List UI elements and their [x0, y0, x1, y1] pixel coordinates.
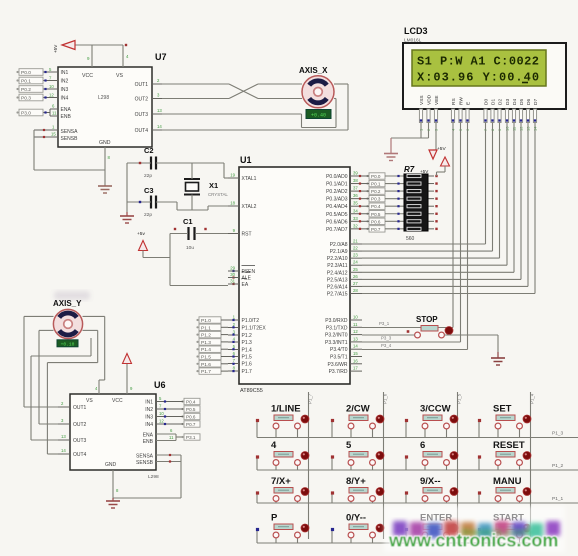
svg-text:1/LINE: 1/LINE [271, 404, 301, 415]
svg-text:32: 32 [353, 223, 358, 228]
svg-text:P1.7: P1.7 [242, 369, 253, 375]
svg-text:ENB: ENB [143, 439, 154, 445]
svg-text:17: 17 [353, 366, 358, 371]
svg-text:GND: GND [105, 462, 117, 468]
svg-text:SET: SET [493, 404, 512, 415]
svg-text:IN1: IN1 [61, 70, 69, 76]
svg-text:P0.4/AD4: P0.4/AD4 [326, 204, 348, 210]
svg-text:P2.6/A14: P2.6/A14 [327, 284, 348, 290]
svg-text:AT89C55: AT89C55 [240, 388, 263, 394]
svg-text:VS: VS [86, 398, 93, 404]
svg-text:P0.0: P0.0 [21, 70, 31, 76]
svg-text:P0.7/AD7: P0.7/AD7 [326, 227, 348, 233]
svg-text:3/CCW: 3/CCW [420, 404, 451, 415]
svg-text:RESET: RESET [493, 440, 525, 451]
svg-text:VS: VS [116, 73, 123, 79]
svg-text:D3: D3 [505, 99, 511, 105]
svg-text:11: 11 [169, 435, 174, 440]
svg-text:P0.5: P0.5 [371, 212, 381, 217]
svg-text:P1.0/T2: P1.0/T2 [242, 318, 260, 324]
svg-text:P0.5: P0.5 [186, 407, 196, 412]
svg-text:OUT2: OUT2 [73, 422, 87, 428]
svg-text:P1.3: P1.3 [242, 340, 253, 346]
svg-text:23: 23 [353, 253, 358, 258]
svg-text:+5V: +5V [53, 44, 58, 53]
svg-text:VEE: VEE [434, 95, 440, 105]
svg-text:XTAL2: XTAL2 [242, 204, 257, 210]
svg-text:P3_1: P3_1 [379, 321, 390, 326]
svg-text:OUT2: OUT2 [135, 97, 149, 103]
svg-text:LCD3: LCD3 [404, 26, 428, 36]
svg-text:P0.5/AD5: P0.5/AD5 [326, 212, 348, 218]
svg-text:OUT1: OUT1 [135, 82, 149, 88]
svg-text:AXIS_X: AXIS_X [299, 66, 328, 75]
svg-text:X:03.96 Y:00.40: X:03.96 Y:00.40 [417, 71, 540, 85]
svg-text:SENSA: SENSA [136, 454, 154, 460]
svg-text:D4: D4 [512, 99, 518, 105]
svg-text:19: 19 [230, 173, 235, 178]
svg-text:14: 14 [61, 448, 66, 453]
svg-text:VSS: VSS [419, 95, 425, 105]
svg-text:P1.5: P1.5 [242, 355, 253, 361]
svg-text:P2.2/A10: P2.2/A10 [327, 256, 348, 262]
svg-text:P1.5: P1.5 [201, 355, 211, 361]
svg-text:P0.2: P0.2 [21, 87, 31, 93]
svg-text:P3.2/INT0: P3.2/INT0 [325, 333, 348, 339]
svg-text:30: 30 [230, 272, 235, 277]
svg-text:P1_6: P1_6 [383, 393, 388, 404]
svg-text:26: 26 [353, 274, 358, 279]
svg-text:VCC: VCC [82, 73, 93, 79]
svg-text:P1.7: P1.7 [201, 369, 211, 375]
svg-text:12: 12 [353, 329, 358, 334]
svg-text:2/CW: 2/CW [346, 404, 370, 415]
svg-text:IN4: IN4 [61, 96, 69, 102]
svg-text:EA: EA [242, 282, 249, 288]
svg-text:OUT3: OUT3 [73, 438, 87, 444]
svg-text:P3.1: P3.1 [186, 435, 196, 440]
svg-text:22p: 22p [144, 212, 152, 218]
svg-text:18: 18 [230, 201, 235, 206]
svg-text:CRYSTAL: CRYSTAL [208, 192, 228, 197]
svg-text:MANU: MANU [493, 476, 522, 487]
svg-text:STOP: STOP [416, 315, 438, 324]
svg-text:D6: D6 [526, 99, 532, 105]
svg-text:P0.1: P0.1 [21, 79, 31, 85]
svg-text:10: 10 [353, 315, 358, 320]
svg-text:U6: U6 [154, 380, 166, 390]
svg-text:P3.4/T0: P3.4/T0 [330, 347, 348, 353]
svg-text:P0.3: P0.3 [21, 96, 31, 102]
svg-text:OUT1: OUT1 [73, 405, 87, 411]
svg-text:P1_4: P1_4 [530, 393, 535, 404]
svg-text:P2.0/A8: P2.0/A8 [330, 242, 348, 248]
svg-text:33: 33 [353, 216, 358, 221]
svg-text:13: 13 [61, 434, 66, 439]
svg-text:P0.7: P0.7 [371, 227, 381, 232]
svg-text:RW: RW [459, 97, 465, 105]
svg-text:C3: C3 [144, 186, 154, 195]
svg-text:P3.1/TXD: P3.1/TXD [326, 325, 348, 331]
svg-text:P3.6/WR: P3.6/WR [327, 362, 347, 368]
svg-text:P2.1/A9: P2.1/A9 [330, 249, 348, 255]
svg-text:11: 11 [52, 111, 57, 116]
svg-text:D1: D1 [491, 99, 497, 105]
svg-text:24: 24 [353, 260, 358, 265]
svg-text:S1 P:W A1 C:0022: S1 P:W A1 C:0022 [417, 55, 539, 69]
svg-text:5: 5 [346, 440, 352, 451]
svg-text:28: 28 [353, 288, 358, 293]
svg-text:15: 15 [51, 132, 56, 137]
svg-text:P1.6: P1.6 [242, 362, 253, 368]
svg-text:C1: C1 [183, 217, 193, 226]
svg-text:25: 25 [353, 267, 358, 272]
svg-text:15: 15 [353, 351, 358, 356]
svg-text:VDD: VDD [427, 94, 433, 105]
svg-text:P3.7/RD: P3.7/RD [329, 369, 348, 375]
svg-text:GND: GND [99, 140, 111, 146]
svg-text:P0.4: P0.4 [186, 400, 196, 405]
svg-text:P2.4/A12: P2.4/A12 [327, 270, 348, 276]
svg-text:22p: 22p [144, 173, 152, 179]
svg-text:P2.3/A11: P2.3/A11 [327, 263, 347, 269]
svg-text:IN1: IN1 [145, 400, 153, 406]
svg-text:16: 16 [353, 358, 358, 363]
svg-text:9/X--: 9/X-- [420, 476, 441, 487]
svg-text:P0.2: P0.2 [371, 189, 381, 194]
svg-text:P1.0: P1.0 [201, 318, 211, 324]
svg-text:35: 35 [353, 201, 358, 206]
svg-text:IN3: IN3 [61, 87, 69, 93]
svg-text:P1.1: P1.1 [201, 325, 211, 331]
svg-text:+0.10: +0.10 [61, 342, 75, 348]
svg-text:+0.40: +0.40 [311, 113, 326, 119]
svg-text:13: 13 [353, 336, 358, 341]
svg-text:P0.6: P0.6 [186, 415, 196, 420]
svg-text:IN3: IN3 [145, 415, 153, 421]
svg-text:ENA: ENA [143, 433, 154, 439]
svg-text:D7: D7 [533, 99, 539, 105]
svg-text:P0.1: P0.1 [371, 182, 381, 187]
svg-text:22: 22 [353, 246, 358, 251]
svg-text:P0.6: P0.6 [371, 219, 381, 224]
svg-text:21: 21 [353, 239, 358, 244]
svg-text:P0.3/AD3: P0.3/AD3 [326, 197, 348, 203]
svg-text:36: 36 [353, 193, 358, 198]
svg-text:P3_4: P3_4 [381, 343, 392, 348]
svg-text:SENSA: SENSA [61, 129, 79, 135]
svg-text:P: P [271, 513, 278, 524]
svg-text:E: E [466, 102, 472, 105]
svg-text:+5v: +5v [137, 231, 145, 237]
svg-text:560: 560 [406, 236, 415, 242]
svg-text:P0.4: P0.4 [371, 204, 381, 209]
svg-text:P1_3: P1_3 [552, 431, 564, 437]
svg-text:P1.6: P1.6 [201, 362, 211, 368]
svg-text:P0.3: P0.3 [371, 197, 381, 202]
svg-text:8/Y+: 8/Y+ [346, 476, 366, 487]
svg-text:P0.1/AD1: P0.1/AD1 [326, 182, 348, 188]
svg-text:P1.3: P1.3 [201, 340, 211, 346]
svg-text:29: 29 [230, 266, 235, 271]
svg-text:X1: X1 [209, 181, 218, 190]
svg-text:P1.4: P1.4 [201, 347, 211, 353]
svg-text:AXIS_Y: AXIS_Y [53, 299, 82, 308]
svg-text:R7: R7 [404, 165, 415, 174]
svg-text:4: 4 [271, 440, 277, 451]
svg-text:10: 10 [49, 84, 54, 89]
svg-text:P3.0/RXD: P3.0/RXD [325, 318, 348, 324]
svg-text:P0.6/AD6: P0.6/AD6 [326, 219, 348, 225]
svg-text:IN4: IN4 [145, 422, 153, 428]
svg-text:P1_7: P1_7 [308, 393, 313, 404]
svg-text:ENB: ENB [61, 114, 72, 120]
svg-text:31: 31 [230, 279, 235, 284]
svg-text:P1_5: P1_5 [457, 393, 462, 404]
svg-text:6: 6 [420, 440, 425, 451]
svg-text:P1.4: P1.4 [242, 348, 253, 354]
svg-text:12: 12 [49, 93, 54, 98]
svg-text:RS: RS [451, 98, 457, 105]
svg-text:IN2: IN2 [61, 79, 69, 85]
svg-text:27: 27 [353, 281, 358, 286]
svg-text:P0.7: P0.7 [186, 422, 196, 427]
svg-text:OUT3: OUT3 [135, 112, 149, 118]
svg-text:0/Y--: 0/Y-- [346, 513, 366, 524]
svg-text:D5: D5 [519, 99, 525, 105]
svg-text:www.cntronics.com: www.cntronics.com [388, 531, 558, 551]
svg-text:RST: RST [242, 232, 252, 238]
svg-text:P1_2: P1_2 [552, 463, 564, 469]
svg-text:P0.2/AD2: P0.2/AD2 [326, 189, 348, 195]
svg-text:VCC: VCC [112, 398, 123, 404]
svg-text:37: 37 [353, 186, 358, 191]
svg-text:P0.0: P0.0 [371, 174, 381, 179]
svg-text:XTAL1: XTAL1 [242, 176, 257, 182]
svg-text:14: 14 [353, 344, 358, 349]
svg-text:P1.2: P1.2 [201, 333, 211, 339]
svg-text:P1_1: P1_1 [552, 496, 564, 502]
svg-text:+5V: +5V [437, 146, 446, 152]
svg-text:39: 39 [353, 171, 358, 176]
svg-text:ENA: ENA [61, 107, 72, 113]
svg-text:13: 13 [157, 108, 162, 113]
svg-text:P3_3: P3_3 [381, 336, 392, 341]
svg-text:P3.5/T1: P3.5/T1 [330, 355, 348, 361]
svg-text:P2.5/A13: P2.5/A13 [327, 277, 348, 283]
svg-text:11: 11 [353, 322, 358, 327]
svg-text:P0.0/AD0: P0.0/AD0 [326, 174, 348, 180]
svg-text:38: 38 [353, 178, 358, 183]
svg-text:OUT4: OUT4 [135, 128, 149, 134]
svg-text:P1.1/T2EX: P1.1/T2EX [242, 326, 267, 332]
svg-text:P3.0: P3.0 [21, 111, 31, 117]
svg-text:U1: U1 [240, 155, 252, 165]
svg-text:D2: D2 [498, 99, 504, 105]
svg-text:P2.7/A15: P2.7/A15 [327, 291, 348, 297]
svg-text:OUT4: OUT4 [73, 452, 87, 458]
svg-text:+5V: +5V [420, 169, 429, 174]
svg-text:C2: C2 [144, 146, 154, 155]
svg-text:34: 34 [353, 208, 358, 213]
svg-text:L298: L298 [98, 95, 109, 101]
svg-text:U7: U7 [155, 52, 167, 62]
svg-text:7/X+: 7/X+ [271, 476, 291, 487]
svg-text:L298: L298 [148, 474, 159, 480]
svg-text:P3.3/INT1: P3.3/INT1 [325, 340, 348, 346]
svg-text:D0: D0 [484, 99, 490, 105]
svg-text:12: 12 [159, 419, 164, 424]
svg-text:SENSB: SENSB [136, 460, 154, 466]
svg-text:P1.2: P1.2 [242, 333, 253, 339]
svg-text:SENSB: SENSB [61, 136, 79, 142]
svg-text:14: 14 [157, 124, 162, 129]
svg-text:10: 10 [159, 411, 164, 416]
svg-text:10u: 10u [186, 245, 194, 251]
svg-text:IN2: IN2 [145, 407, 153, 413]
